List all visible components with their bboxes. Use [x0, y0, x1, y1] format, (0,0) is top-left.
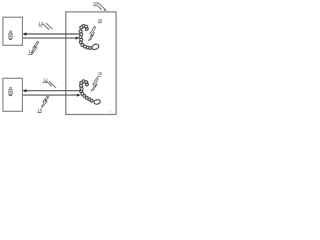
lightning bolt 34 (top, inside enclosure) — [88, 26, 96, 42]
svg-text:16: 16 — [37, 107, 42, 112]
faint mark (scan speck, bottom-right) — [108, 110, 111, 113]
wireless link mark 12 (bottom) — [45, 81, 56, 89]
leader bolt 14 (below top box) — [31, 41, 39, 54]
coil end loop (bottom) — [93, 99, 100, 105]
enclosure box 20 — [66, 12, 116, 115]
leader bolt 16 (below bottom wires) — [41, 95, 49, 107]
svg-text:12: 12 — [38, 21, 43, 26]
svg-text:14: 14 — [28, 49, 33, 54]
svg-text:12: 12 — [43, 78, 48, 83]
wire bottom lower (arrow into enclosure, to coil 32) — [23, 94, 78, 96]
svg-text:36: 36 — [97, 71, 102, 76]
svg-text:36: 36 — [98, 18, 103, 23]
device icon in bottom box — [9, 88, 12, 97]
device icon in top box — [9, 31, 12, 40]
svg-text:30: 30 — [93, 1, 98, 6]
leader slashes for label 30 — [97, 3, 107, 11]
device box 10 (bottom-left) — [3, 78, 23, 111]
wire bottom upper (arrow to device box 10) — [26, 90, 82, 92]
coil 32 (bottom, chain of loops) — [80, 80, 101, 105]
lightning bolt 34 (bottom, inside enclosure) — [90, 78, 98, 92]
wireless link mark 12 (top) — [43, 23, 53, 30]
wire top lower (arrow into enclosure, to coil 32) — [23, 37, 76, 39]
coil 32 (top, chain of loops) — [79, 25, 100, 51]
device box 40 (top-left) — [3, 17, 23, 45]
wire top upper (arrow to device box 40) — [26, 33, 80, 35]
coil end loop (top) — [91, 43, 99, 50]
